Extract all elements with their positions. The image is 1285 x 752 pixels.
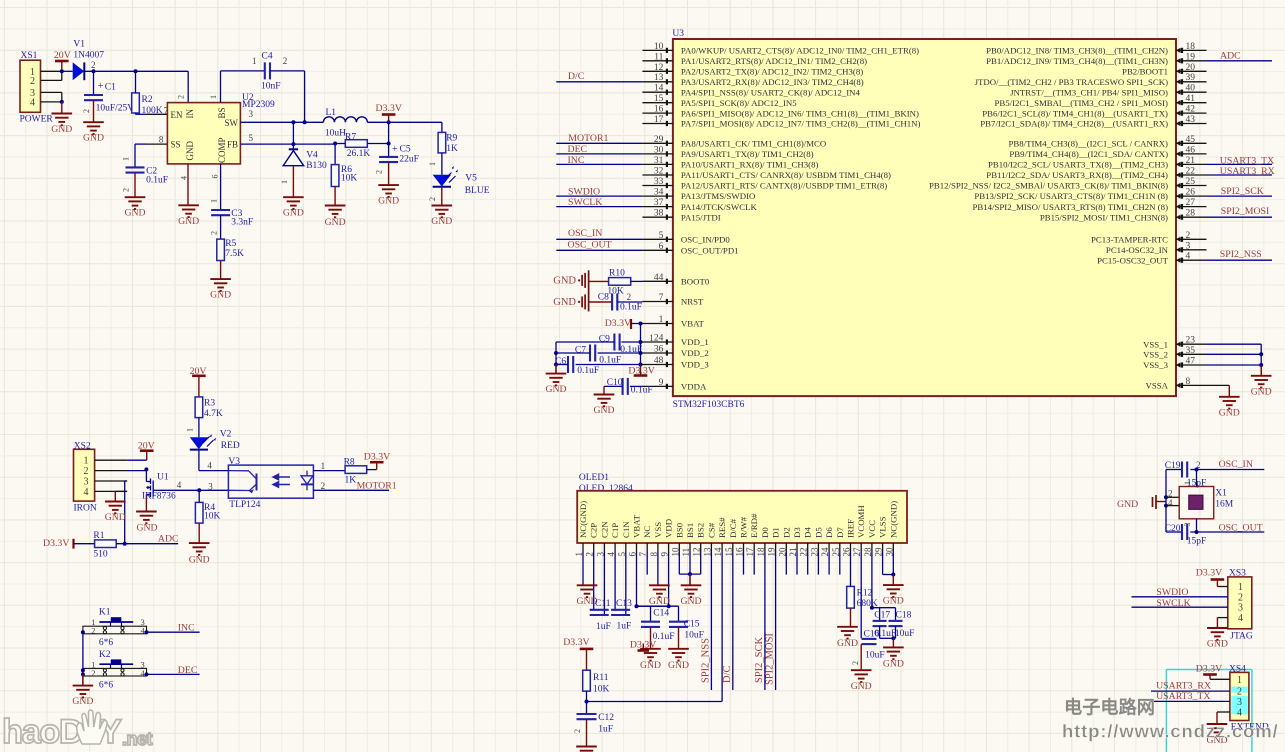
svg-text:5: 5 xyxy=(249,133,254,143)
svg-text:GND: GND xyxy=(1219,407,1240,418)
svg-text:ADC: ADC xyxy=(1220,50,1241,61)
svg-text:2: 2 xyxy=(122,188,131,192)
svg-text:2: 2 xyxy=(627,292,632,302)
svg-text:SWCLK: SWCLK xyxy=(1156,598,1190,609)
svg-text:3.3nF: 3.3nF xyxy=(231,218,253,228)
svg-text:4: 4 xyxy=(180,176,189,180)
svg-text:6*6: 6*6 xyxy=(99,638,114,648)
svg-text:14: 14 xyxy=(654,84,664,94)
svg-text:SW: SW xyxy=(225,118,239,128)
svg-text:IRON: IRON xyxy=(74,503,97,513)
svg-text:8: 8 xyxy=(1186,377,1191,387)
svg-text:MOTOR1: MOTOR1 xyxy=(357,480,397,491)
svg-text:4: 4 xyxy=(84,487,89,498)
svg-text:18: 18 xyxy=(1186,42,1196,52)
svg-text:6: 6 xyxy=(211,175,220,179)
svg-text:SPI2_MOSI: SPI2_MOSI xyxy=(765,633,776,685)
svg-text:7: 7 xyxy=(659,293,664,303)
svg-text:1: 1 xyxy=(659,315,664,325)
svg-text:2: 2 xyxy=(91,668,95,678)
svg-text:2: 2 xyxy=(91,626,95,636)
svg-text:D0: D0 xyxy=(760,527,770,538)
svg-text:PA12/USART1_RTS/ CANTX(8)//USB: PA12/USART1_RTS/ CANTX(8)//USBDP TIM1_ET… xyxy=(681,181,887,191)
svg-text:1K: 1K xyxy=(446,144,458,154)
svg-text:V4: V4 xyxy=(306,151,318,161)
svg-text:C19: C19 xyxy=(1165,461,1181,471)
svg-text:SPI2_SCK: SPI2_SCK xyxy=(1221,186,1264,197)
svg-text:C13: C13 xyxy=(616,599,632,609)
svg-text:PB14/SPI2_MISO/ USART3_RTS(8): PB14/SPI2_MISO/ USART3_RTS(8) TIM1_CH2N … xyxy=(972,202,1168,212)
svg-text:41: 41 xyxy=(1186,94,1196,104)
svg-text:POWER: POWER xyxy=(20,115,54,125)
svg-text:R11: R11 xyxy=(593,673,609,683)
svg-text:GND: GND xyxy=(137,522,158,533)
svg-text:2: 2 xyxy=(91,60,96,70)
svg-text:NC(GND): NC(GND) xyxy=(578,501,588,538)
svg-text:45: 45 xyxy=(1186,135,1196,145)
svg-text:C1P: C1P xyxy=(610,523,620,538)
svg-text:VCC: VCC xyxy=(867,520,877,538)
svg-text:1: 1 xyxy=(1183,481,1192,485)
svg-text:V1: V1 xyxy=(73,40,85,50)
svg-text:+: + xyxy=(392,144,398,155)
svg-text:GND: GND xyxy=(1117,499,1138,510)
svg-text:.net: .net xyxy=(122,729,153,749)
svg-text:haoD: haoD xyxy=(2,713,83,751)
svg-text:C14: C14 xyxy=(653,608,669,618)
svg-text:5: 5 xyxy=(659,231,664,241)
svg-text:6: 6 xyxy=(659,242,664,252)
svg-text:1: 1 xyxy=(210,199,219,203)
svg-text:GND: GND xyxy=(851,681,872,692)
svg-text:U3: U3 xyxy=(672,29,684,39)
svg-text:D3.3V: D3.3V xyxy=(605,318,631,329)
svg-text:GND: GND xyxy=(883,596,904,607)
svg-text:PB0/ADC12_IN8/ TIM3_CH3(8)__(T: PB0/ADC12_IN8/ TIM3_CH3(8)__(TIM1_CH2N) xyxy=(986,46,1168,56)
svg-text:0.1uF: 0.1uF xyxy=(577,366,599,376)
svg-text:C18: C18 xyxy=(896,611,912,621)
svg-text:9: 9 xyxy=(659,378,664,388)
svg-text:1uF: 1uF xyxy=(596,622,611,632)
svg-text:GND: GND xyxy=(72,696,93,707)
svg-text:INC: INC xyxy=(568,155,585,166)
svg-text:C8: C8 xyxy=(598,293,609,303)
svg-text:12: 12 xyxy=(654,63,664,73)
svg-text:42: 42 xyxy=(1186,105,1196,115)
svg-text:NC: NC xyxy=(642,526,652,538)
svg-text:MOTOR1: MOTOR1 xyxy=(568,133,608,144)
svg-text:D3.3V: D3.3V xyxy=(364,451,390,462)
svg-text:GND: GND xyxy=(178,216,199,227)
svg-text:D3.3V: D3.3V xyxy=(1196,568,1222,579)
svg-text:R5: R5 xyxy=(225,239,236,249)
svg-text:VDD_2: VDD_2 xyxy=(681,348,709,358)
svg-text:PB15/SPI2_MOSI/ TIM1_CH3N(8): PB15/SPI2_MOSI/ TIM1_CH3N(8) xyxy=(1040,212,1168,222)
svg-text:3: 3 xyxy=(1237,697,1242,708)
svg-text:D4: D4 xyxy=(803,527,813,538)
svg-text:SWCLK: SWCLK xyxy=(568,197,602,208)
svg-text:PB2/BOOT1: PB2/BOOT1 xyxy=(1122,67,1168,77)
svg-text:10uF: 10uF xyxy=(865,650,885,660)
svg-text:U1: U1 xyxy=(157,473,169,483)
svg-text:TLP124: TLP124 xyxy=(229,500,260,510)
svg-text:30: 30 xyxy=(654,145,664,155)
svg-text:4: 4 xyxy=(177,480,182,490)
svg-text:VBAT: VBAT xyxy=(632,514,642,538)
svg-text:7: 7 xyxy=(164,106,169,116)
svg-text:1: 1 xyxy=(186,428,195,432)
svg-text:VDD: VDD xyxy=(664,519,674,538)
svg-text:3: 3 xyxy=(1183,523,1192,527)
svg-text:21: 21 xyxy=(1186,156,1196,166)
svg-text:PA15/JTDI: PA15/JTDI xyxy=(681,212,721,222)
svg-text:GND: GND xyxy=(553,297,576,308)
svg-text:STM32F103CBT6: STM32F103CBT6 xyxy=(673,400,745,410)
svg-text:1: 1 xyxy=(428,162,437,166)
svg-text:VDDA: VDDA xyxy=(681,382,707,392)
svg-text:1: 1 xyxy=(84,456,89,467)
svg-text:R10: R10 xyxy=(609,269,625,279)
svg-text:GND: GND xyxy=(105,512,126,523)
svg-text:16: 16 xyxy=(654,105,664,115)
svg-text:C2N: C2N xyxy=(599,521,609,538)
svg-text:2: 2 xyxy=(573,729,582,733)
svg-text:GND: GND xyxy=(125,208,146,219)
svg-text:GND: GND xyxy=(83,133,104,144)
svg-text:JTDO/__(TIM2_CH2 / PB3 TRACES: JTDO/__(TIM2_CH2 / PB3 TRACESWO SPI1_SCK… xyxy=(975,77,1168,87)
svg-text:1: 1 xyxy=(280,180,289,184)
svg-text:D1: D1 xyxy=(771,527,781,538)
svg-text:PB10/I2C2_SCL/ USART3_TX(8)__(: PB10/I2C2_SCL/ USART3_TX(8)__(TIM2_CH3) xyxy=(988,160,1168,170)
svg-text:39: 39 xyxy=(1186,73,1196,83)
svg-text:+: + xyxy=(98,81,104,92)
svg-text:ADC: ADC xyxy=(158,533,179,544)
svg-text:19: 19 xyxy=(1186,52,1196,62)
svg-text:NC(GND): NC(GND) xyxy=(888,501,898,538)
svg-text:36: 36 xyxy=(654,345,664,355)
svg-text:C12: C12 xyxy=(598,713,614,723)
svg-text:2: 2 xyxy=(210,231,219,235)
svg-text:3: 3 xyxy=(208,482,213,492)
svg-text:22uF: 22uF xyxy=(399,155,419,165)
svg-text:D7: D7 xyxy=(835,527,845,538)
svg-text:R9: R9 xyxy=(446,133,457,143)
svg-text:R3: R3 xyxy=(204,399,215,409)
svg-text:2: 2 xyxy=(1186,231,1191,241)
svg-text:GND: GND xyxy=(837,638,858,649)
svg-text:11: 11 xyxy=(654,52,663,62)
svg-text:PA13/JTMS/SWDIO: PA13/JTMS/SWDIO xyxy=(681,191,755,201)
svg-text:GND: GND xyxy=(431,216,452,227)
svg-text:D6: D6 xyxy=(824,527,834,538)
svg-text:PB11/I2C2_SDA/ USART3_RX(8)__(: PB11/I2C2_SDA/ USART3_RX(8)__(TIM2_CH4) xyxy=(986,170,1168,180)
svg-text:23: 23 xyxy=(1186,336,1196,346)
svg-text:电子电路网: 电子电路网 xyxy=(1064,697,1155,718)
svg-text:C11: C11 xyxy=(595,599,611,609)
svg-text:PA4/SPI1_NSS(8)/ USART2_CK(8)/: PA4/SPI1_NSS(8)/ USART2_CK(8)/ ADC12_IN4 xyxy=(681,87,861,97)
svg-text:R7: R7 xyxy=(345,133,356,143)
svg-text:SPI2_SCK: SPI2_SCK xyxy=(754,636,765,683)
svg-text:FB: FB xyxy=(227,140,238,150)
svg-text:GND: GND xyxy=(185,141,195,161)
svg-text:SPI2_NSS: SPI2_NSS xyxy=(700,638,711,683)
svg-text:2: 2 xyxy=(321,481,326,491)
svg-text:IRF8736: IRF8736 xyxy=(142,492,176,502)
svg-text:C20: C20 xyxy=(1165,524,1181,534)
svg-text:10uH: 10uH xyxy=(325,128,346,138)
svg-text:3: 3 xyxy=(249,109,254,119)
svg-text:1: 1 xyxy=(1237,675,1242,686)
svg-text:PB9/TIM4_CH4(8)__(I2C1_SDA/ CA: PB9/TIM4_CH4(8)__(I2C1_SDA/ CANTX) xyxy=(1009,149,1168,159)
svg-text:PB5/I2C1_SMBAl__(TIM3_CH2 / SP: PB5/I2C1_SMBAl__(TIM3_CH2 / SPI1_MOSI) xyxy=(994,98,1168,108)
svg-text:10uF: 10uF xyxy=(895,629,915,639)
svg-text:SPI2_NSS: SPI2_NSS xyxy=(1220,249,1262,260)
svg-text:D5: D5 xyxy=(813,527,823,538)
svg-text:7.5K: 7.5K xyxy=(225,249,244,259)
svg-text:GND: GND xyxy=(594,405,615,416)
svg-text:10nF: 10nF xyxy=(261,81,281,91)
svg-text:USART3_TX: USART3_TX xyxy=(1156,691,1210,702)
svg-text:R8: R8 xyxy=(344,458,355,468)
svg-text:MP2309: MP2309 xyxy=(242,100,275,110)
svg-text:2: 2 xyxy=(30,76,35,87)
svg-text:PB8/TIM4_CH3(8)__(I2C1_SCL / C: PB8/TIM4_CH3(8)__(I2C1_SCL / CANRX) xyxy=(1009,139,1169,149)
svg-text:VDD_1: VDD_1 xyxy=(681,337,709,347)
svg-text:PB13/SPI2_SCK/ USART3_CTS(8)/: PB13/SPI2_SCK/ USART3_CTS(8)/ TIM1_CH1N … xyxy=(974,191,1168,201)
svg-text:GND: GND xyxy=(668,660,689,671)
svg-text:37: 37 xyxy=(654,198,664,208)
svg-text:0.1uF: 0.1uF xyxy=(146,176,168,186)
svg-text:26.1K: 26.1K xyxy=(347,149,371,159)
svg-text:2: 2 xyxy=(177,95,186,99)
svg-text:USART3_RX: USART3_RX xyxy=(1156,681,1211,692)
svg-text:22: 22 xyxy=(1186,167,1196,177)
svg-text:RES#: RES# xyxy=(717,517,727,538)
svg-text:OSC_IN: OSC_IN xyxy=(1219,459,1253,470)
svg-text:2: 2 xyxy=(283,56,288,66)
svg-text:BS2: BS2 xyxy=(696,523,706,538)
svg-text:GND: GND xyxy=(325,217,346,228)
svg-text:25: 25 xyxy=(1186,177,1196,187)
svg-text:GND: GND xyxy=(283,208,304,219)
svg-text:29: 29 xyxy=(654,135,664,145)
svg-text:4: 4 xyxy=(1168,498,1173,508)
svg-text:1: 1 xyxy=(122,157,131,161)
svg-text:BS0: BS0 xyxy=(674,522,684,538)
svg-text:K2: K2 xyxy=(99,650,111,660)
svg-text:PB1/ADC12_IN9/ TIM3_CH4(8)__(T: PB1/ADC12_IN9/ TIM3_CH4(8)__(TIM1_CH3N) xyxy=(986,56,1168,66)
svg-text:10K: 10K xyxy=(607,286,624,296)
svg-text:OLED1: OLED1 xyxy=(579,473,609,483)
svg-text:D/C: D/C xyxy=(568,71,584,82)
svg-text:20: 20 xyxy=(1186,63,1196,73)
svg-text:38: 38 xyxy=(654,209,664,219)
svg-text:20V: 20V xyxy=(54,50,71,61)
svg-text:VSS_1: VSS_1 xyxy=(1143,339,1168,349)
svg-text:D3.3V: D3.3V xyxy=(376,103,402,114)
svg-text:C5: C5 xyxy=(400,145,411,155)
svg-text:15pF: 15pF xyxy=(1187,537,1207,547)
svg-text:DEC: DEC xyxy=(568,144,588,155)
svg-text:48: 48 xyxy=(654,356,664,366)
svg-text:C15: C15 xyxy=(684,620,700,630)
svg-text:SPI2_MOSI: SPI2_MOSI xyxy=(1221,206,1269,217)
svg-text:PA0/WKUP/ USART2_CTS(8)/ ADC12: PA0/WKUP/ USART2_CTS(8)/ ADC12_IN0/ TIM2… xyxy=(681,46,919,56)
svg-text:3: 3 xyxy=(1186,241,1191,251)
svg-text:C9: C9 xyxy=(599,335,610,345)
svg-text:1: 1 xyxy=(252,56,257,66)
svg-text:47: 47 xyxy=(1186,357,1196,367)
svg-text:10K: 10K xyxy=(593,684,610,694)
svg-text:0.1uF: 0.1uF xyxy=(620,345,642,355)
svg-text:2: 2 xyxy=(82,109,91,113)
svg-text:D2: D2 xyxy=(781,527,791,538)
svg-text:46: 46 xyxy=(1186,145,1196,155)
svg-text:4.7K: 4.7K xyxy=(204,409,223,419)
svg-text:COMP: COMP xyxy=(217,137,227,163)
svg-text:44: 44 xyxy=(654,273,664,283)
svg-text:VSSA: VSSA xyxy=(1146,381,1169,391)
svg-text:GND: GND xyxy=(1251,386,1272,397)
svg-text:D/C: D/C xyxy=(722,665,733,683)
svg-text:SWDIO: SWDIO xyxy=(1156,587,1188,598)
svg-text:16M: 16M xyxy=(1215,499,1234,509)
svg-text:CS#: CS# xyxy=(706,522,716,538)
svg-text:32: 32 xyxy=(654,167,664,177)
svg-text:SS: SS xyxy=(171,140,181,150)
svg-text:PA1/USART2_RTS(8)/ ADC12_IN1/: PA1/USART2_RTS(8)/ ADC12_IN1/ TIM2_CH2(8… xyxy=(681,56,867,66)
svg-text:33: 33 xyxy=(654,177,664,187)
svg-text:R1: R1 xyxy=(93,531,104,541)
svg-text:3: 3 xyxy=(84,477,89,488)
svg-text:D3.3V: D3.3V xyxy=(43,538,69,549)
svg-text:10uF/25V: 10uF/25V xyxy=(96,103,135,113)
svg-text:2: 2 xyxy=(375,170,384,174)
svg-text:PA2/USART2_TX(8)/ ADC12_IN2/ T: PA2/USART2_TX(8)/ ADC12_IN2/ TIM2_CH3(8) xyxy=(681,67,863,77)
svg-text:RED: RED xyxy=(221,441,240,451)
svg-text:PA7/SPI1_MOSI(8)/ ADC12_IN7/ T: PA7/SPI1_MOSI(8)/ ADC12_IN7/ TIM3_CH2(8)… xyxy=(681,119,921,129)
svg-text:4: 4 xyxy=(30,97,35,108)
svg-text:GND: GND xyxy=(883,658,904,669)
svg-text:K1: K1 xyxy=(99,608,111,618)
svg-text:PA8/USART1_CK/ TIM1_CH1(8)/MCO: PA8/USART1_CK/ TIM1_CH1(8)/MCO xyxy=(681,139,826,149)
svg-text:4: 4 xyxy=(207,461,212,471)
svg-text:GND: GND xyxy=(649,596,670,607)
svg-text:IREF: IREF xyxy=(846,519,856,538)
svg-text:31: 31 xyxy=(654,156,664,166)
svg-text:PA10/USART1_RX(8)/ TIM1_CH3(8): PA10/USART1_RX(8)/ TIM1_CH3(8) xyxy=(681,160,819,170)
svg-text:B130: B130 xyxy=(306,161,327,171)
svg-text:10K: 10K xyxy=(341,174,358,184)
svg-text:0.1uF: 0.1uF xyxy=(631,386,653,396)
svg-text:10K: 10K xyxy=(204,511,221,521)
svg-text:PB7/I2C1_SDA(8)/ TIM4_CH2(8)__: PB7/I2C1_SDA(8)/ TIM4_CH2(8)__(USART1_RX… xyxy=(980,119,1168,129)
svg-text:2: 2 xyxy=(1238,592,1243,603)
svg-text:GND: GND xyxy=(1207,639,1228,650)
svg-text:PA6/SPI1_MISO(8)/ ADC12_IN6/ T: PA6/SPI1_MISO(8)/ ADC12_IN6/ TIM3_CH1(8)… xyxy=(681,108,919,118)
svg-text:OSC_IN: OSC_IN xyxy=(568,228,602,239)
svg-text:2: 2 xyxy=(84,466,89,477)
svg-text:GND: GND xyxy=(378,196,399,207)
svg-text:C1N: C1N xyxy=(621,521,631,538)
svg-text:4: 4 xyxy=(1237,708,1242,719)
svg-text:VLSS: VLSS xyxy=(878,516,888,538)
svg-text:4: 4 xyxy=(1186,252,1191,262)
svg-text:D3.3V: D3.3V xyxy=(563,637,589,648)
svg-text:JTAG: JTAG xyxy=(1230,631,1253,641)
svg-text:PA3/USART2_RX(8)/ ADC12_IN3/ T: PA3/USART2_RX(8)/ ADC12_IN3/ TIM2_CH4(8) xyxy=(681,77,864,87)
svg-text:2: 2 xyxy=(428,197,437,201)
svg-text:VSS_2: VSS_2 xyxy=(1143,350,1168,360)
svg-text:VSS: VSS xyxy=(653,522,663,538)
svg-text:GND: GND xyxy=(210,290,231,301)
svg-text:D/C#: D/C# xyxy=(728,518,738,538)
svg-text:INC: INC xyxy=(178,623,195,634)
svg-text:GND: GND xyxy=(51,124,72,135)
svg-text:1uF: 1uF xyxy=(598,724,613,734)
svg-text:8: 8 xyxy=(159,135,164,145)
svg-text:VDD_3: VDD_3 xyxy=(681,360,709,370)
svg-text:1: 1 xyxy=(649,333,654,343)
svg-text:C4: C4 xyxy=(262,51,273,61)
svg-text:1: 1 xyxy=(321,461,326,471)
svg-text:510: 510 xyxy=(93,550,108,560)
svg-text:PB12/SPI2_NSS/ I2C2_SMBAl/ USA: PB12/SPI2_NSS/ I2C2_SMBAl/ USART3_CK(8)/… xyxy=(929,181,1168,191)
svg-text:GND: GND xyxy=(640,660,661,671)
svg-text:OSC_OUT/PD1: OSC_OUT/PD1 xyxy=(681,246,739,256)
svg-text:BS: BS xyxy=(217,107,227,118)
svg-text:2: 2 xyxy=(851,661,860,665)
svg-text:BLUE: BLUE xyxy=(465,186,490,196)
svg-text:JNTRST/__(TIM3_CH1/ PB4/ SPI1_: JNTRST/__(TIM3_CH1/ PB4/ SPI1_MISO) xyxy=(1010,87,1168,97)
svg-text:VCOMH: VCOMH xyxy=(856,505,866,538)
svg-text:BOOT0: BOOT0 xyxy=(681,277,710,287)
svg-text:R12: R12 xyxy=(857,589,873,599)
svg-text:C2P: C2P xyxy=(589,523,599,538)
svg-text:DEC: DEC xyxy=(178,665,198,676)
svg-text:1K: 1K xyxy=(345,475,357,485)
svg-text:28: 28 xyxy=(1186,209,1196,219)
svg-text:C7: C7 xyxy=(575,346,586,356)
svg-text:USART3_RX: USART3_RX xyxy=(1220,166,1275,177)
svg-text:GND: GND xyxy=(546,384,567,395)
svg-text:IN: IN xyxy=(185,109,195,119)
svg-text:R2: R2 xyxy=(142,95,153,105)
svg-text:SWDIO: SWDIO xyxy=(568,186,600,197)
svg-text:V2: V2 xyxy=(220,430,232,440)
svg-text:13: 13 xyxy=(654,73,664,83)
svg-text:PB6/I2C1_SCL(8)/ TIM4_CH1(8)__: PB6/I2C1_SCL(8)/ TIM4_CH1(8)__(USART1_TX… xyxy=(982,108,1168,118)
svg-text:C17: C17 xyxy=(874,611,890,621)
svg-text:X1: X1 xyxy=(1215,489,1227,499)
svg-text:27: 27 xyxy=(1186,198,1196,208)
svg-text:http://www.cndzz.com/: http://www.cndzz.com/ xyxy=(1062,721,1279,742)
svg-text:4: 4 xyxy=(1238,613,1243,624)
svg-text:1uF: 1uF xyxy=(617,621,632,631)
svg-text:E/RD#: E/RD# xyxy=(749,513,759,538)
svg-text:EN: EN xyxy=(171,110,183,120)
svg-text:PA14/JTCK/SWCLK: PA14/JTCK/SWCLK xyxy=(681,202,758,212)
svg-text:6*6: 6*6 xyxy=(99,680,114,690)
svg-text:43: 43 xyxy=(1186,115,1196,125)
svg-text:BS1: BS1 xyxy=(685,523,695,538)
svg-text:1N4007: 1N4007 xyxy=(73,51,104,61)
svg-text:PC13-TAMPER-RTC: PC13-TAMPER-RTC xyxy=(1091,235,1168,245)
svg-text:40: 40 xyxy=(1186,84,1196,94)
svg-text:PC14-OSC32_IN: PC14-OSC32_IN xyxy=(1106,245,1169,255)
svg-text:VSS_3: VSS_3 xyxy=(1143,360,1169,370)
svg-text:24: 24 xyxy=(654,334,664,344)
